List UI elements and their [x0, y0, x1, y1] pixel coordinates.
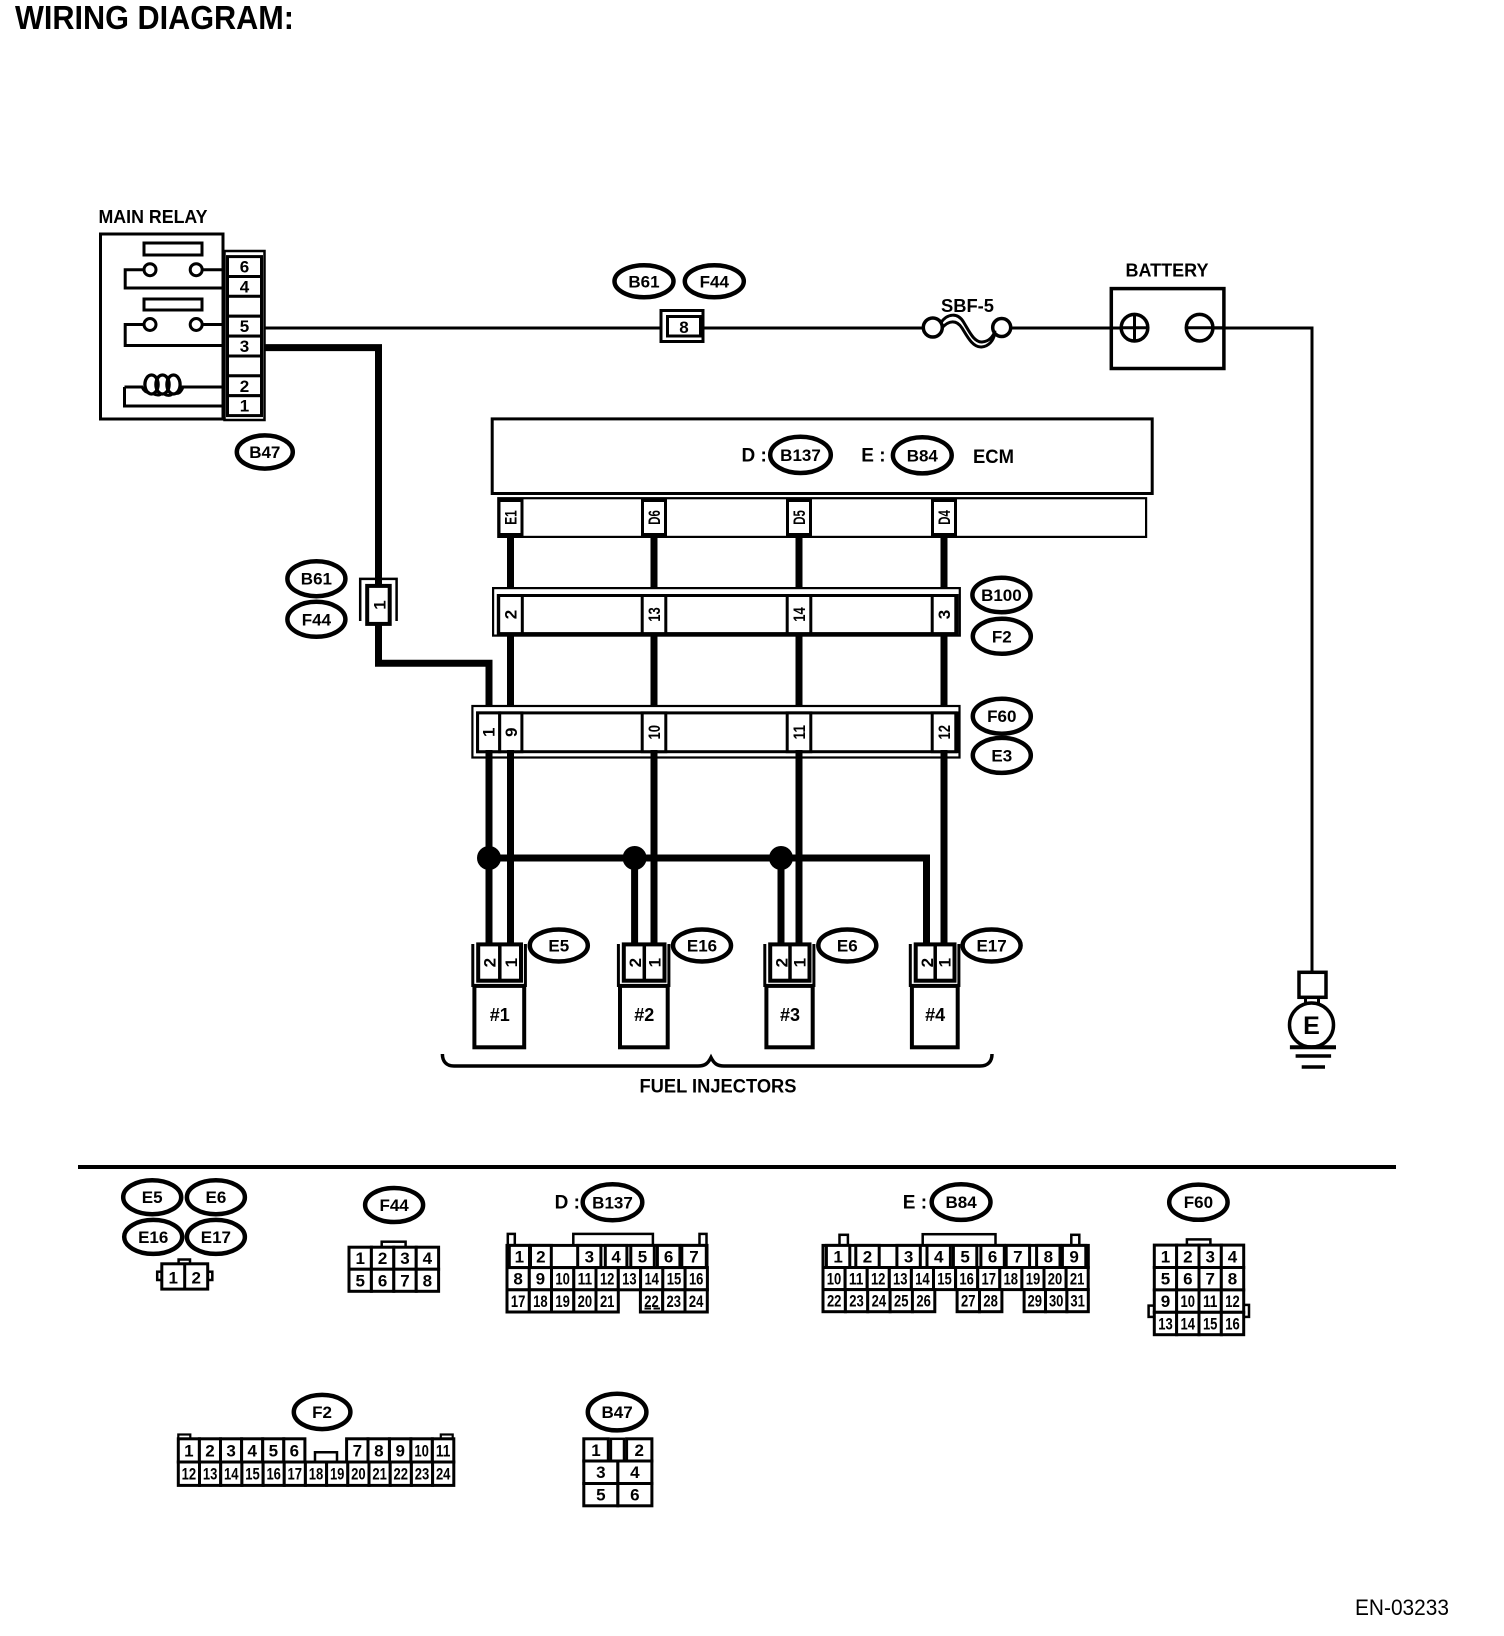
svg-text:2: 2	[772, 958, 791, 967]
ground connector box	[1299, 972, 1326, 997]
B137 pin 11	[574, 1268, 596, 1290]
relay pin cell blank	[228, 356, 262, 376]
fuel injector #2	[618, 944, 669, 1047]
relay pin cell 6	[228, 257, 262, 277]
wire	[507, 633, 514, 714]
wire	[651, 536, 658, 597]
connector ref F2 (bottom)	[294, 1395, 351, 1429]
B137 pin 5	[631, 1245, 655, 1267]
connector ref F2	[973, 619, 1031, 654]
F2 pin 18	[305, 1462, 326, 1485]
svg-text:#3: #3	[780, 1005, 800, 1025]
svg-text:23: 23	[415, 1465, 430, 1484]
svg-text:12: 12	[935, 725, 954, 740]
injector 2-pin connector drawing	[157, 1260, 212, 1290]
fuel injectors brace	[442, 1054, 992, 1066]
F60 pin 14	[1177, 1312, 1199, 1334]
svg-text:2: 2	[205, 1441, 214, 1460]
svg-text:E6: E6	[206, 1188, 227, 1207]
connector ref F60 (mid)	[973, 699, 1031, 734]
connector ref F44 (bottom)	[365, 1188, 423, 1222]
svg-text:14: 14	[224, 1465, 239, 1484]
svg-text:BATTERY: BATTERY	[1126, 261, 1209, 281]
relay contact bar 1	[144, 243, 202, 255]
B84 pin 7	[1006, 1245, 1029, 1267]
ECM pin D4	[933, 501, 956, 535]
wire fuse 8 to SBF-5	[703, 327, 924, 330]
svg-text:2: 2	[626, 958, 645, 967]
F60 pin 4	[1221, 1245, 1243, 1267]
wire relay pin3 down to connector 1 and bar E3 pin1	[265, 348, 490, 716]
B137 pin 18	[529, 1290, 551, 1312]
ground body E	[1290, 1003, 1334, 1047]
svg-text:13: 13	[1158, 1315, 1173, 1334]
ECM pin D5	[788, 501, 811, 535]
svg-text:F60: F60	[987, 707, 1016, 726]
svg-text:1: 1	[355, 1249, 364, 1268]
B84 pin 23	[845, 1290, 867, 1312]
svg-text:4: 4	[1228, 1247, 1238, 1266]
svg-text:F44: F44	[379, 1196, 409, 1215]
svg-text:19: 19	[1026, 1270, 1041, 1289]
B84 pin 8	[1037, 1245, 1060, 1267]
svg-text:B84: B84	[946, 1193, 978, 1212]
svg-text:14: 14	[644, 1270, 659, 1289]
bar B100/F2 pin 14	[787, 596, 811, 634]
F2 pin 24	[433, 1462, 454, 1485]
svg-text:5: 5	[240, 317, 249, 336]
svg-text:18: 18	[533, 1292, 548, 1311]
main relay box	[101, 234, 224, 419]
B137 pin 22	[640, 1290, 662, 1312]
B84 pin 16	[956, 1268, 978, 1290]
svg-text:16: 16	[1225, 1315, 1240, 1334]
svg-text:FUEL INJECTORS: FUEL INJECTORS	[640, 1077, 797, 1098]
ground bus wire	[489, 858, 927, 947]
svg-text:8: 8	[513, 1270, 522, 1289]
B137 pin 23	[663, 1290, 685, 1312]
B84 pin 4	[927, 1245, 950, 1267]
B137 pin 19	[552, 1290, 574, 1312]
svg-text:1: 1	[935, 958, 954, 967]
B84 pin 6	[981, 1245, 1004, 1267]
F44 pin 8	[416, 1269, 438, 1291]
svg-text:17: 17	[511, 1292, 526, 1311]
bar B100/F2 pin 3	[932, 596, 956, 634]
svg-text:E17: E17	[201, 1228, 231, 1247]
svg-text:23: 23	[667, 1292, 682, 1311]
svg-text:1: 1	[515, 1248, 524, 1267]
wire bar pin10 down to injector #2 pin1	[651, 750, 658, 947]
F60 pin 15	[1199, 1312, 1221, 1334]
B137 pin 6	[657, 1245, 680, 1267]
svg-text:E16: E16	[687, 937, 717, 956]
svg-text:B137: B137	[592, 1193, 633, 1212]
F2 pin 14	[221, 1462, 242, 1485]
fuse 8	[661, 311, 703, 342]
svg-text:D6: D6	[645, 510, 664, 525]
B137 pin 7	[682, 1245, 707, 1267]
svg-text:1: 1	[790, 958, 809, 967]
wire SBF-5 to battery	[1011, 327, 1111, 330]
F2 pin 3	[221, 1439, 242, 1462]
B137 pin 4	[605, 1245, 627, 1267]
svg-text:12: 12	[1225, 1292, 1240, 1311]
svg-text:15: 15	[1203, 1315, 1218, 1334]
svg-text:F44: F44	[302, 610, 332, 629]
wire	[941, 633, 948, 714]
ECM pin D6	[643, 501, 666, 535]
svg-text:B100: B100	[981, 586, 1022, 605]
svg-text:F2: F2	[312, 1403, 332, 1422]
svg-text:11: 11	[436, 1441, 451, 1460]
B84 pin 21	[1066, 1268, 1088, 1290]
junction node	[623, 846, 647, 870]
F60 pin 2	[1177, 1245, 1199, 1267]
svg-text:18: 18	[309, 1465, 324, 1484]
svg-text:3: 3	[596, 1463, 605, 1482]
svg-text:19: 19	[555, 1292, 570, 1311]
F60 pin 1	[1154, 1245, 1176, 1267]
F2 pin 10	[411, 1439, 432, 1462]
F44 pin 3	[394, 1247, 416, 1269]
svg-text:12: 12	[600, 1270, 615, 1289]
svg-text:1: 1	[833, 1248, 842, 1267]
svg-text:16: 16	[959, 1270, 974, 1289]
svg-text:7: 7	[353, 1441, 362, 1460]
connector ref E17 (injector)	[963, 930, 1021, 962]
B137 row1 band	[507, 1245, 707, 1267]
svg-text:9: 9	[1161, 1292, 1170, 1311]
F2 pin 21	[369, 1462, 390, 1485]
B47 pin 1	[584, 1439, 609, 1461]
svg-text:8: 8	[423, 1271, 432, 1290]
connector ref B137 (ECM)	[770, 437, 831, 473]
svg-text:SBF-5: SBF-5	[941, 296, 994, 316]
relay pin cell 5	[228, 316, 262, 336]
svg-text:9: 9	[1069, 1248, 1078, 1267]
svg-text:E1: E1	[502, 510, 521, 525]
svg-text:10: 10	[555, 1270, 570, 1289]
F2 pin 4	[242, 1439, 263, 1462]
ground symbol	[1290, 1047, 1336, 1067]
svg-text:2: 2	[502, 610, 521, 619]
svg-text:22: 22	[394, 1465, 409, 1484]
svg-text:27: 27	[961, 1292, 976, 1311]
B84 pin 24	[868, 1290, 890, 1312]
B137 pin 8	[507, 1268, 529, 1290]
F2 pin 9	[390, 1439, 411, 1462]
F60 pin 3	[1199, 1245, 1221, 1267]
svg-text:4: 4	[934, 1248, 944, 1267]
F2 pin 12	[178, 1462, 199, 1485]
relay contact bar 2	[144, 299, 202, 310]
F2 key tab	[315, 1452, 337, 1462]
svg-text:12: 12	[182, 1465, 197, 1484]
svg-text:B61: B61	[301, 570, 332, 589]
svg-text:5: 5	[269, 1441, 278, 1460]
svg-text:E5: E5	[142, 1188, 163, 1207]
svg-text:10: 10	[414, 1441, 429, 1460]
svg-text:6: 6	[630, 1486, 639, 1505]
svg-text:B47: B47	[249, 443, 280, 462]
connector ref E3	[973, 738, 1031, 773]
connector bar F60/E3 body	[478, 713, 958, 752]
svg-text:F2: F2	[992, 627, 1012, 646]
svg-text:15: 15	[667, 1270, 682, 1289]
fuel injector #4	[910, 944, 959, 1047]
svg-text:21: 21	[600, 1292, 615, 1311]
svg-text:8: 8	[1228, 1270, 1237, 1289]
svg-text:E16: E16	[138, 1228, 168, 1247]
svg-text:3: 3	[226, 1441, 235, 1460]
connector ref E16 (injector)	[673, 930, 731, 962]
F44 pin 2	[371, 1247, 393, 1269]
svg-text:8: 8	[374, 1441, 383, 1460]
F60 pin 11	[1199, 1290, 1221, 1312]
relay connector outline	[225, 251, 265, 420]
B137 pin 3	[578, 1245, 601, 1267]
svg-text:18: 18	[1004, 1270, 1019, 1289]
B84 pin 20	[1044, 1268, 1066, 1290]
B84 pin 2	[856, 1245, 879, 1267]
svg-text:17: 17	[982, 1270, 997, 1289]
svg-text:E :: E :	[861, 446, 885, 467]
svg-text:4: 4	[423, 1249, 433, 1268]
connector ref E5	[123, 1180, 181, 1214]
bar F60/E3 pin 1	[478, 713, 500, 752]
B137 pin 14	[641, 1268, 663, 1290]
B84 pin 18	[1000, 1268, 1022, 1290]
B84 pin 12	[867, 1268, 889, 1290]
svg-text:24: 24	[872, 1292, 887, 1311]
F2 pin 5	[263, 1439, 284, 1462]
B84 pin 14	[911, 1268, 933, 1290]
svg-text:6: 6	[240, 258, 249, 277]
wire bar pin9 down to injector #1 pin1	[507, 750, 514, 947]
F60 pin 12	[1221, 1290, 1243, 1312]
relay contact 1 points	[144, 264, 202, 276]
wire bar pin12 down to injector #4 pin1	[941, 750, 948, 947]
ground neck	[1306, 997, 1319, 1004]
svg-text:E17: E17	[976, 937, 1006, 956]
svg-text:2: 2	[536, 1248, 545, 1267]
svg-text:5: 5	[355, 1271, 364, 1290]
svg-text:29: 29	[1028, 1292, 1043, 1311]
svg-text:F44: F44	[700, 272, 730, 291]
bar F60/E3 pin 9	[500, 713, 522, 752]
connector ref F60 (bottom)	[1169, 1185, 1227, 1220]
bar F60/E3 pin 10	[642, 713, 666, 752]
B47 pin 5	[584, 1484, 618, 1506]
connector ref B137 (bottom)	[583, 1184, 643, 1220]
svg-text:20: 20	[351, 1465, 366, 1484]
F2 pin 8	[368, 1439, 389, 1462]
svg-text:E :: E :	[903, 1193, 927, 1214]
svg-text:3: 3	[240, 337, 249, 356]
svg-text:D :: D :	[555, 1193, 580, 1214]
wire relay pin5 to fuse 8	[265, 327, 662, 330]
svg-text:4: 4	[247, 1441, 257, 1460]
F2 pin 15	[242, 1462, 263, 1485]
svg-text:1: 1	[371, 600, 390, 609]
F44 pin 1	[349, 1247, 371, 1269]
F2 pin 19	[327, 1462, 348, 1485]
svg-text:1: 1	[1161, 1247, 1170, 1266]
F60 pin 9	[1154, 1290, 1176, 1312]
wire	[796, 633, 803, 714]
svg-text:7: 7	[1013, 1248, 1022, 1267]
B84 pin 28	[980, 1290, 1002, 1312]
svg-text:B137: B137	[780, 446, 821, 465]
svg-text:30: 30	[1049, 1292, 1064, 1311]
svg-text:#1: #1	[490, 1005, 510, 1025]
B137 pin 9	[529, 1268, 551, 1290]
svg-text:16: 16	[689, 1270, 704, 1289]
svg-text:9: 9	[536, 1270, 545, 1289]
F2 pin 6	[284, 1439, 305, 1462]
B47 pin 2	[627, 1439, 652, 1461]
connector ref E6	[187, 1180, 245, 1214]
svg-text:24: 24	[436, 1465, 451, 1484]
connector B137 pin grid	[507, 1234, 707, 1312]
svg-text:3: 3	[1205, 1247, 1214, 1266]
svg-text:8: 8	[1044, 1248, 1053, 1267]
F60 pin 7	[1199, 1268, 1221, 1290]
junction node	[769, 846, 793, 870]
svg-text:MAIN RELAY: MAIN RELAY	[99, 207, 208, 227]
B84 pin 9	[1062, 1245, 1085, 1267]
B137 pin 12	[596, 1268, 618, 1290]
svg-text:6: 6	[664, 1248, 673, 1267]
svg-text:1: 1	[168, 1269, 177, 1288]
svg-text:1: 1	[645, 958, 664, 967]
B137 pin 15	[663, 1268, 685, 1290]
relay pin cell 3	[228, 336, 262, 356]
B137 pin 13	[618, 1268, 640, 1290]
F60 pin 6	[1177, 1268, 1199, 1290]
connector ref B100	[972, 578, 1030, 612]
connector ref B61 (top)	[615, 265, 674, 297]
connector B47 pin grid	[584, 1439, 652, 1506]
F60 pin 13	[1154, 1312, 1176, 1334]
svg-text:5: 5	[596, 1486, 605, 1505]
svg-text:6: 6	[378, 1271, 387, 1290]
svg-text:7: 7	[1205, 1270, 1214, 1289]
B84 pin 5	[953, 1245, 976, 1267]
svg-text:B84: B84	[907, 446, 939, 465]
svg-text:13: 13	[645, 607, 664, 622]
svg-text:2: 2	[240, 377, 249, 396]
svg-text:24: 24	[689, 1292, 704, 1311]
svg-text:21: 21	[1070, 1270, 1085, 1289]
battery	[1111, 289, 1225, 369]
B84 pin 13	[889, 1268, 911, 1290]
svg-text:17: 17	[288, 1465, 303, 1484]
svg-text:ECM: ECM	[973, 447, 1014, 468]
relay pin cell 2	[228, 376, 262, 396]
connector ref E17	[187, 1220, 245, 1254]
B84 pin 11	[845, 1268, 867, 1290]
svg-text:6: 6	[290, 1441, 299, 1460]
B137 pin 2	[531, 1245, 552, 1267]
svg-text:2: 2	[480, 958, 499, 967]
B84 pin 31	[1067, 1290, 1088, 1312]
wire bus to injector #3 pin2	[778, 858, 785, 947]
connector bar B100/F2 body	[498, 596, 957, 634]
svg-text:2: 2	[863, 1248, 872, 1267]
svg-text:E3: E3	[991, 746, 1012, 765]
svg-text:5: 5	[960, 1248, 969, 1267]
svg-text:4: 4	[630, 1463, 640, 1482]
svg-text:1: 1	[480, 728, 499, 737]
F44 pin 6	[371, 1269, 393, 1291]
relay pin cell blank	[228, 296, 262, 316]
svg-text:9: 9	[395, 1441, 404, 1460]
svg-text:14: 14	[1181, 1315, 1196, 1334]
B137 pin 1	[509, 1245, 529, 1267]
svg-text:1: 1	[591, 1441, 600, 1460]
svg-text:B61: B61	[628, 272, 659, 291]
junction node	[477, 846, 501, 870]
svg-text:22: 22	[827, 1292, 842, 1311]
svg-text:#2: #2	[634, 1005, 654, 1025]
connector bar F60/E3 outline	[472, 706, 959, 758]
bar B100/F2 pin 2	[499, 596, 523, 634]
ECM box	[492, 419, 1152, 494]
svg-text:15: 15	[245, 1465, 260, 1484]
B84 pin 29	[1024, 1290, 1045, 1312]
svg-text:16: 16	[266, 1465, 281, 1484]
B137 pin 21	[596, 1290, 618, 1312]
svg-text:10: 10	[827, 1270, 842, 1289]
F44 pin 4	[416, 1247, 438, 1269]
svg-text:2: 2	[1183, 1247, 1192, 1266]
B84 pin 27	[957, 1290, 979, 1312]
svg-text:2: 2	[918, 958, 937, 967]
F60 pin 16	[1221, 1312, 1243, 1334]
svg-text:2: 2	[634, 1441, 643, 1460]
svg-text:11: 11	[578, 1270, 593, 1289]
svg-text:3: 3	[585, 1248, 594, 1267]
svg-text:5: 5	[1161, 1270, 1170, 1289]
F60 pin 5	[1154, 1268, 1176, 1290]
F2 pin 2	[199, 1439, 220, 1462]
B84 pin 30	[1046, 1290, 1067, 1312]
svg-text:14: 14	[790, 607, 809, 622]
connector F2 pin grid	[178, 1435, 454, 1486]
bar B100/F2 pin 13	[642, 596, 666, 634]
F2 pin 17	[284, 1462, 305, 1485]
svg-text:5: 5	[638, 1248, 647, 1267]
wire bus to injector #2 pin2	[631, 858, 638, 947]
svg-text:21: 21	[372, 1465, 387, 1484]
svg-text:D :: D :	[742, 446, 767, 467]
svg-text:13: 13	[622, 1270, 637, 1289]
svg-text:#4: #4	[925, 1005, 945, 1025]
F60 pin 8	[1221, 1268, 1243, 1290]
B137 pin 17	[507, 1290, 529, 1312]
svg-text:1: 1	[184, 1441, 193, 1460]
wire relay contact1 to pin 6	[202, 268, 229, 271]
B84 row1 band	[823, 1245, 1088, 1267]
B84 pin 1	[826, 1245, 849, 1267]
wire	[796, 536, 803, 597]
svg-text:7: 7	[689, 1248, 698, 1267]
svg-text:1: 1	[502, 958, 521, 967]
svg-text:26: 26	[916, 1292, 931, 1311]
inline connector pin 1	[360, 579, 396, 624]
